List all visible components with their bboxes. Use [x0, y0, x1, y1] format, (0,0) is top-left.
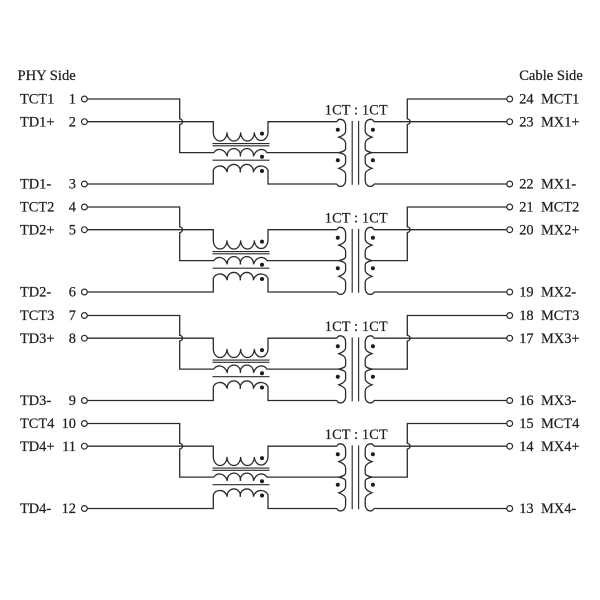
wire T4 secondary bottom to pin 13 MX4- [374, 508, 507, 510]
svg-text:MCT4: MCT4 [541, 416, 579, 432]
choke CM4 core (double line) [213, 468, 270, 470]
polarity dot, T2 primary top half [336, 236, 340, 240]
wire TCT2 to choke CM2 middle winding and transformer T2 primary centre tap (hop over TD2+) [87, 207, 214, 261]
svg-text:MX1-: MX1- [541, 177, 576, 193]
svg-text:TCT1: TCT1 [20, 92, 54, 108]
svg-text:MX4-: MX4- [541, 501, 576, 517]
svg-text:PHY Side: PHY Side [18, 68, 76, 84]
pin 2 TD1+ terminal circle [82, 119, 88, 125]
polarity dot, choke CM1 top winding [260, 132, 264, 136]
pin 23 MX1+ terminal circle [507, 119, 513, 125]
svg-text:12: 12 [62, 501, 76, 517]
svg-text:7: 7 [69, 308, 76, 324]
choke CM4 core (single line) [213, 484, 270, 486]
transformer T3 core (double vertical line) [352, 337, 358, 401]
wire transformer T3 secondary centre tap up to pin 18 MCT3 (hop over MX3+) [372, 316, 507, 370]
svg-text:2: 2 [69, 114, 76, 130]
pin 14 MX4+ terminal circle [507, 443, 513, 449]
svg-text:MX2-: MX2- [541, 285, 576, 301]
common-mode choke CM1 middle winding (centre-tap winding) [214, 149, 339, 157]
wire T3 secondary top to pin 17 MX3+ [374, 337, 507, 339]
wire TD3+ through choke CM3 top winding to transformer T3 primary top [87, 338, 337, 357]
wire TD1- through choke CM1 bottom winding to transformer T1 primary bottom [87, 164, 337, 184]
wire TCT3 to choke CM3 middle winding and transformer T3 primary centre tap (hop over TD3+) [87, 316, 214, 370]
svg-text:9: 9 [69, 393, 76, 409]
svg-text:MX4+: MX4+ [541, 439, 580, 455]
svg-text:MX2+: MX2+ [541, 222, 580, 238]
wire T4 secondary top to pin 14 MX4+ [374, 445, 507, 447]
polarity dot, choke CM3 middle winding [260, 371, 264, 375]
transformer T2 core (double vertical line) [352, 229, 358, 293]
svg-text:TD3+: TD3+ [20, 331, 55, 347]
svg-text:TCT3: TCT3 [20, 308, 54, 324]
pin 24 MCT1 terminal circle [507, 96, 513, 102]
svg-text:22: 22 [519, 177, 533, 193]
polarity dot, T1 primary bottom half [336, 158, 340, 162]
common-mode choke CM3 middle winding (centre-tap winding) [214, 365, 339, 373]
svg-text:10: 10 [62, 416, 76, 432]
polarity dot, choke CM1 bottom winding [260, 169, 264, 173]
polarity dot, choke CM1 middle winding [260, 155, 264, 159]
wire transformer T1 secondary centre tap up to pin 24 MCT1 (hop over MX1+) [372, 99, 507, 153]
svg-text:11: 11 [62, 439, 76, 455]
svg-text:1: 1 [69, 92, 76, 108]
svg-text:TD4-: TD4- [20, 501, 51, 517]
common-mode choke CM4 middle winding (centre-tap winding) [214, 473, 339, 481]
svg-text:19: 19 [519, 285, 533, 301]
pin 3 TD1- terminal circle [82, 181, 88, 187]
svg-text:TD3-: TD3- [20, 393, 51, 409]
pin 17 MX3+ terminal circle [507, 335, 513, 341]
pin 9 TD3- terminal circle [82, 398, 88, 404]
svg-text:TD4+: TD4+ [20, 439, 55, 455]
polarity dot, choke CM4 top winding [260, 456, 264, 460]
svg-text:16: 16 [519, 393, 533, 409]
svg-text:MX3-: MX3- [541, 393, 576, 409]
polarity dot, T1 primary top half [336, 128, 340, 132]
polarity dot, T4 secondary top half [371, 452, 375, 456]
choke CM1 core (single line) [213, 159, 270, 161]
transformer T1 primary winding (left, 1CT) [337, 119, 346, 186]
svg-text:TCT4: TCT4 [20, 416, 54, 432]
wire T1 secondary top to pin 23 MX1+ [374, 121, 507, 123]
svg-text:8: 8 [69, 331, 76, 347]
pin 12 TD4- terminal circle [82, 506, 88, 512]
pin 1 TCT1 terminal circle [82, 96, 88, 102]
pin 13 MX4- terminal circle [507, 506, 513, 512]
svg-text:MX1+: MX1+ [541, 114, 580, 130]
svg-text:TD1-: TD1- [20, 177, 51, 193]
wire T2 secondary bottom to pin 19 MX2- [374, 291, 507, 293]
pin 7 TCT3 terminal circle [82, 313, 88, 319]
svg-text:MCT1: MCT1 [541, 92, 579, 108]
svg-text:1CT : 1CT: 1CT : 1CT [325, 103, 388, 119]
polarity dot, T1 secondary bottom half [371, 158, 375, 162]
choke CM3 core (single line) [213, 376, 270, 378]
polarity dot, T1 secondary top half [371, 128, 375, 132]
svg-text:21: 21 [519, 200, 533, 216]
svg-text:20: 20 [519, 222, 533, 238]
svg-text:5: 5 [69, 222, 76, 238]
svg-text:23: 23 [519, 114, 533, 130]
svg-text:TD1+: TD1+ [20, 114, 55, 130]
pin 15 MCT4 terminal circle [507, 421, 513, 427]
svg-text:1CT : 1CT: 1CT : 1CT [325, 211, 388, 227]
wire TCT1 to choke CM1 middle winding and transformer T1 primary centre tap (hop over TD1+) [87, 99, 214, 153]
choke CM1 core (double line) [213, 144, 270, 146]
svg-text:3: 3 [69, 177, 76, 193]
transformer T4 core (double vertical line) [352, 445, 358, 509]
wire T3 secondary bottom to pin 16 MX3- [374, 400, 507, 402]
common-mode choke CM2 middle winding (centre-tap winding) [214, 257, 339, 265]
svg-text:14: 14 [519, 439, 533, 455]
transformer T1 core (double vertical line) [352, 121, 358, 185]
polarity dot, T2 secondary top half [371, 236, 375, 240]
pin 4 TCT2 terminal circle [82, 204, 88, 210]
svg-text:1CT : 1CT: 1CT : 1CT [325, 319, 388, 335]
svg-text:MX3+: MX3+ [541, 331, 580, 347]
wire TD2- through choke CM2 bottom winding to transformer T2 primary bottom [87, 272, 337, 292]
polarity dot, choke CM2 bottom winding [260, 277, 264, 281]
wire TD3- through choke CM3 bottom winding to transformer T3 primary bottom [87, 381, 337, 401]
wire TCT4 to choke CM4 middle winding and transformer T4 primary centre tap (hop over TD4+) [87, 424, 214, 478]
choke CM2 core (single line) [213, 267, 270, 269]
svg-text:TCT2: TCT2 [20, 200, 54, 216]
wire TD1+ through choke CM1 top winding to transformer T1 primary top [87, 122, 337, 141]
polarity dot, T3 primary bottom half [336, 375, 340, 379]
svg-text:Cable Side: Cable Side [519, 68, 583, 84]
polarity dot, choke CM4 bottom winding [260, 494, 264, 498]
polarity dot, choke CM3 top winding [260, 348, 264, 352]
svg-text:TD2+: TD2+ [20, 222, 55, 238]
polarity dot, T2 primary bottom half [336, 266, 340, 270]
polarity dot, T4 primary bottom half [336, 483, 340, 487]
choke CM3 core (double line) [213, 360, 270, 362]
pin 22 MX1- terminal circle [507, 181, 513, 187]
pin 8 TD3+ terminal circle [82, 335, 88, 341]
svg-text:18: 18 [519, 308, 533, 324]
svg-text:TD2-: TD2- [20, 285, 51, 301]
wire transformer T4 secondary centre tap up to pin 15 MCT4 (hop over MX4+) [372, 424, 507, 478]
wire T1 secondary bottom to pin 22 MX1- [374, 183, 507, 185]
svg-text:4: 4 [69, 200, 76, 216]
pin 6 TD2- terminal circle [82, 289, 88, 295]
wire TD4+ through choke CM4 top winding to transformer T4 primary top [87, 446, 337, 465]
svg-text:24: 24 [519, 92, 533, 108]
polarity dot, choke CM2 top winding [260, 240, 264, 244]
svg-text:17: 17 [519, 331, 533, 347]
pin 19 MX2- terminal circle [507, 289, 513, 295]
svg-text:15: 15 [519, 416, 533, 432]
wire transformer T2 secondary centre tap up to pin 21 MCT2 (hop over MX2+) [372, 207, 507, 261]
transformer T2 secondary winding (right, 1CT) [365, 227, 374, 294]
pin 11 TD4+ terminal circle [82, 443, 88, 449]
svg-text:1CT : 1CT: 1CT : 1CT [325, 427, 388, 443]
choke CM2 core (double line) [213, 252, 270, 254]
transformer T4 secondary winding (right, 1CT) [365, 444, 374, 511]
polarity dot, choke CM3 bottom winding [260, 386, 264, 390]
polarity dot, T4 primary top half [336, 452, 340, 456]
svg-text:MCT3: MCT3 [541, 308, 579, 324]
polarity dot, T2 secondary bottom half [371, 266, 375, 270]
transformer T3 secondary winding (right, 1CT) [365, 336, 374, 403]
svg-text:13: 13 [519, 501, 533, 517]
polarity dot, T3 primary top half [336, 344, 340, 348]
polarity dot, T4 secondary bottom half [371, 483, 375, 487]
polarity dot, T3 secondary bottom half [371, 375, 375, 379]
wire TD2+ through choke CM2 top winding to transformer T2 primary top [87, 230, 337, 249]
svg-text:MCT2: MCT2 [541, 200, 579, 216]
wire TD4- through choke CM4 bottom winding to transformer T4 primary bottom [87, 489, 337, 509]
transformer T4 primary winding (left, 1CT) [337, 444, 346, 511]
pin 10 TCT4 terminal circle [82, 421, 88, 427]
transformer T2 primary winding (left, 1CT) [337, 227, 346, 294]
transformer T1 secondary winding (right, 1CT) [365, 119, 374, 186]
polarity dot, choke CM4 middle winding [260, 479, 264, 483]
polarity dot, T3 secondary top half [371, 344, 375, 348]
svg-text:6: 6 [69, 285, 76, 301]
polarity dot, choke CM2 middle winding [260, 263, 264, 267]
wire T2 secondary top to pin 20 MX2+ [374, 229, 507, 231]
pin 16 MX3- terminal circle [507, 398, 513, 404]
transformer T3 primary winding (left, 1CT) [337, 336, 346, 403]
pin 18 MCT3 terminal circle [507, 313, 513, 319]
pin 5 TD2+ terminal circle [82, 227, 88, 233]
pin 21 MCT2 terminal circle [507, 204, 513, 210]
pin 20 MX2+ terminal circle [507, 227, 513, 233]
